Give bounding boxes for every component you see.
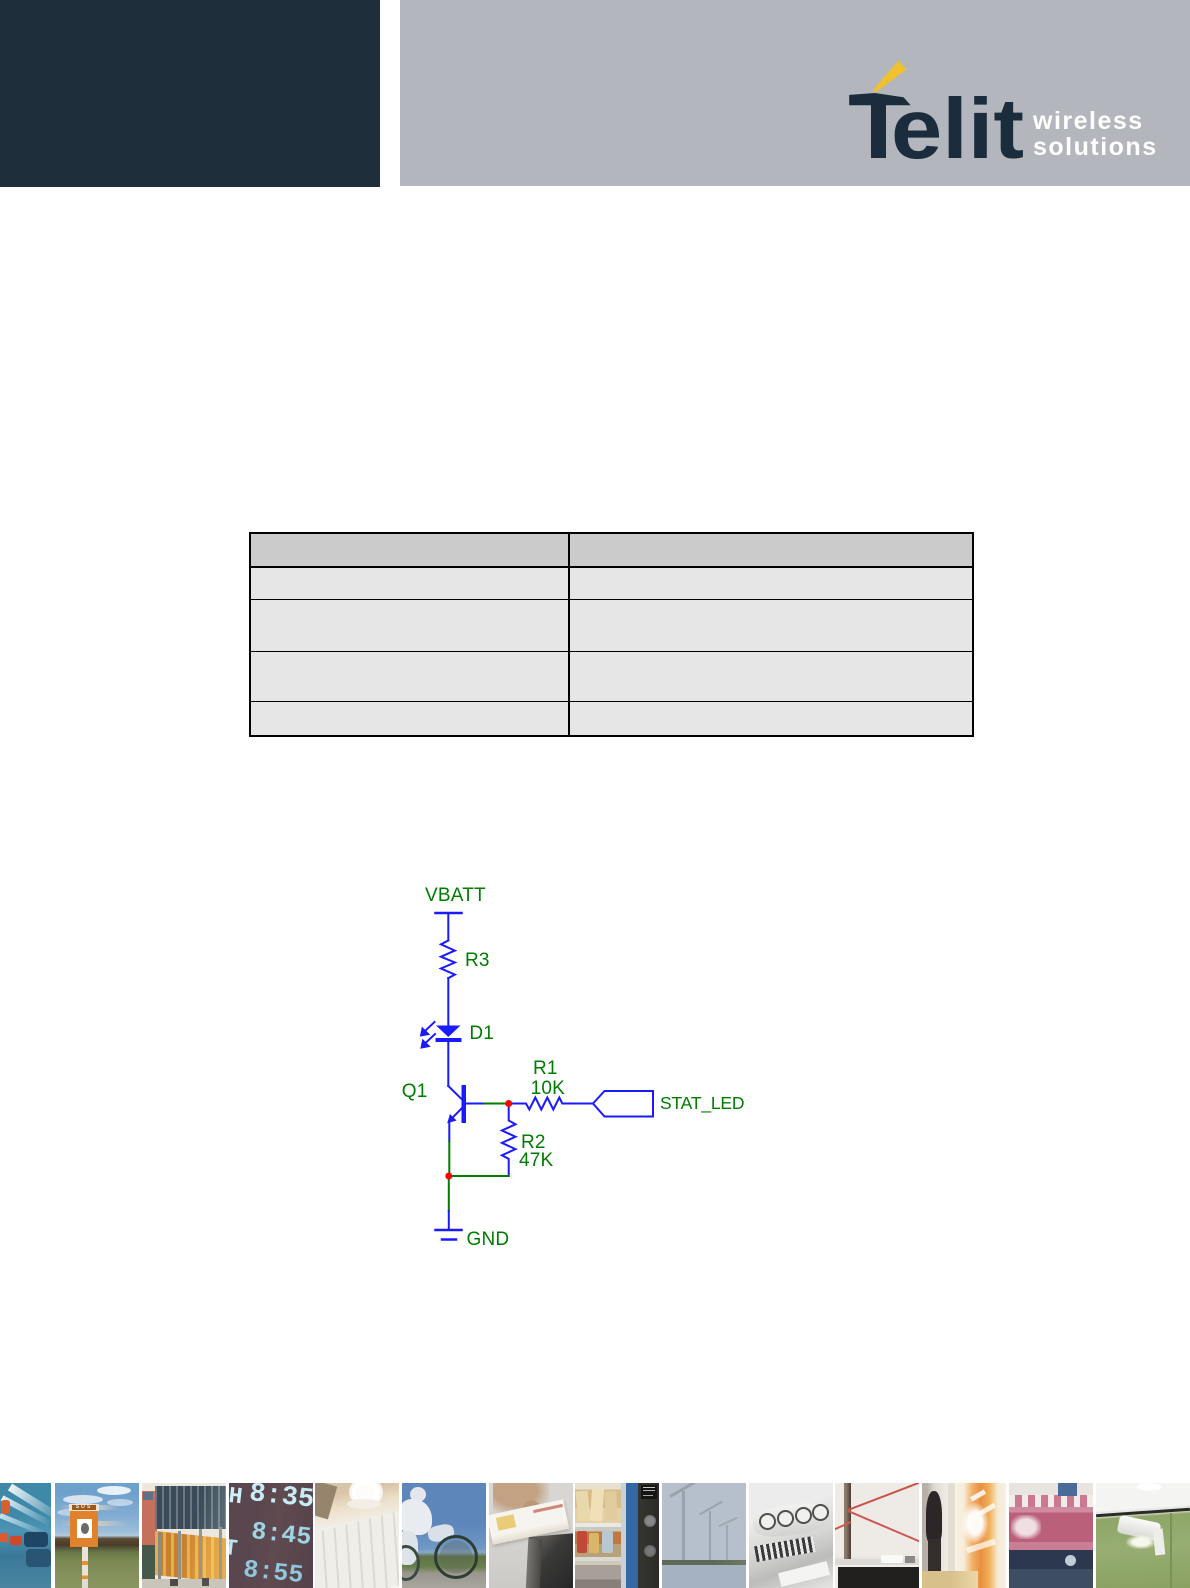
photo: train platform: [922, 1483, 1006, 1588]
T letter: [849, 93, 911, 105]
resistor R3: [441, 941, 455, 979]
svg-text:D1: D1: [469, 1023, 494, 1044]
photo: security camera: [1096, 1483, 1190, 1588]
svg-text:elit: elit: [891, 82, 1024, 170]
schematic: [390, 875, 770, 1260]
resistor R2: [502, 1107, 516, 1176]
photo: production line: [1009, 1483, 1093, 1588]
photo: laptop: [315, 1483, 399, 1588]
photo: kilowatt meter: [749, 1483, 833, 1588]
wire VBATT to R3: [447, 913, 449, 941]
header gray block: [400, 0, 1190, 186]
yellow slash: [873, 61, 907, 93]
photo: containers: [142, 1483, 226, 1588]
header dark block: [0, 0, 380, 187]
transistor Q1 base bar: [462, 1085, 467, 1123]
wire D1 to Q1 collector: [447, 1042, 449, 1086]
wire ground lead: [448, 1211, 450, 1230]
node A junction (base/R1/R2): [505, 1100, 512, 1107]
svg-text:R1: R1: [533, 1058, 558, 1079]
photo: card reader: [489, 1483, 573, 1588]
wire R3 to D1: [447, 978, 449, 1025]
ground: [436, 1229, 462, 1232]
wire emitter pin: [448, 1121, 450, 1141]
svg-text:STAT_LED: STAT_LED: [660, 1093, 744, 1114]
LED D1 anode triangle: [436, 1026, 461, 1038]
transistor Q1 emitter arrowhead: [447, 1114, 456, 1123]
transistor Q1 emitter lead: [449, 1109, 461, 1122]
photo: vending shelves: [575, 1483, 659, 1588]
svg-text:solutions: solutions: [1033, 133, 1158, 161]
wire node B to ground: [448, 1180, 450, 1212]
svg-text:GND: GND: [467, 1229, 510, 1250]
photo: SOS phone: [55, 1483, 139, 1588]
transistor Q1 base lead: [466, 1103, 485, 1105]
photo: cyclist: [402, 1483, 486, 1588]
resistor R1: [512, 1098, 593, 1110]
photo: wind turbines: [662, 1483, 746, 1588]
table: [249, 532, 974, 737]
wire node B to R2 bottom: [449, 1175, 509, 1177]
photo filmstrip: [0, 1483, 1190, 1588]
photo: night traffic: [0, 1483, 51, 1588]
svg-text:R3: R3: [465, 950, 490, 971]
wire base to node A: [485, 1103, 509, 1105]
node B junction (emitter/R2/GND): [445, 1173, 452, 1180]
svg-text:wireless: wireless: [1032, 107, 1144, 135]
power symbol VBATT: [436, 912, 462, 915]
wire emitter to node B: [448, 1141, 450, 1173]
connector STAT_LED: [593, 1091, 653, 1117]
LED D1 cathode bar: [436, 1038, 462, 1042]
photo: time display: [229, 1483, 313, 1588]
column divider: [568, 534, 570, 735]
photo: bridge cables: [835, 1483, 919, 1588]
transistor Q1 collector lead: [448, 1086, 461, 1099]
LED emission arrow 2: [426, 1034, 435, 1043]
Telit logo: [830, 50, 1170, 170]
svg-text:47K: 47K: [519, 1150, 554, 1171]
LED emission arrow 1: [426, 1022, 435, 1031]
svg-text:10K: 10K: [531, 1078, 566, 1099]
svg-text:VBATT: VBATT: [425, 885, 486, 906]
svg-text:Q1: Q1: [402, 1081, 428, 1102]
